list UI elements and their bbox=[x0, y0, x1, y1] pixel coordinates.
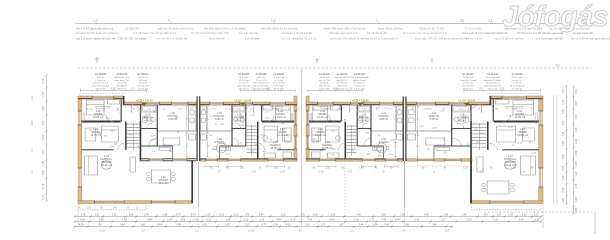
unit 4: terrace dashed outline bbox=[471, 204, 541, 210]
svg-text:tok 1,0 kosz valaszfal mm ret: tok 1,0 kosz valaszfal mm ret bbox=[76, 36, 115, 40]
unit 2: window left-wall mid bbox=[294, 136, 298, 149]
svg-text:2,4 25 2,4: 2,4 25 2,4 bbox=[138, 88, 149, 90]
unit 4: window bottom-mid bbox=[445, 158, 461, 161]
right edge line bbox=[594, 212, 596, 234]
top border line bbox=[75, 23, 593, 25]
svg-text:1,99: 1,99 bbox=[144, 214, 149, 217]
svg-text:+2,87: +2,87 bbox=[517, 142, 523, 144]
svg-text:15 fsz nyil: 15 fsz nyil bbox=[463, 83, 473, 85]
svg-text:-0,02: -0,02 bbox=[251, 171, 257, 173]
unit 4: tv cabinet bbox=[477, 157, 483, 172]
svg-text:0,64: 0,64 bbox=[120, 224, 125, 227]
unit 4: window top-mid bbox=[449, 102, 468, 105]
svg-text:4,00: 4,00 bbox=[79, 224, 84, 227]
unit 1: bedroom door arc bbox=[106, 115, 114, 122]
svg-text:+2,87: +2,87 bbox=[519, 134, 525, 136]
svg-text:0,39: 0,39 bbox=[562, 89, 565, 94]
svg-text:4,51: 4,51 bbox=[265, 86, 271, 90]
unit 1: canopy overhang dashed bbox=[79, 93, 125, 95]
svg-text:1,76: 1,76 bbox=[259, 219, 264, 222]
svg-text:kosz besz 150: kosz besz 150 bbox=[115, 80, 130, 82]
unit 4: left exterior wall bbox=[539, 96, 543, 203]
unit 1: fridge bbox=[189, 134, 196, 140]
unit 3: dim lines under bottom wall bbox=[319, 165, 336, 167]
unit 1: wall tick marks bbox=[120, 105, 122, 107]
unit 2: elevation marker bbox=[240, 103, 246, 106]
unit 4: window top-right bbox=[416, 102, 435, 105]
unit 1: window top-mid bbox=[143, 102, 160, 105]
svg-text:15 210 30: 15 210 30 bbox=[125, 26, 139, 30]
svg-text:E1 90/240: E1 90/240 bbox=[238, 73, 250, 76]
unit 4: room2/living separator wall bbox=[502, 149, 539, 151]
svg-text:4,00: 4,00 bbox=[424, 214, 429, 217]
unit 1: hall door arc bbox=[149, 138, 157, 145]
svg-text:75 12 mm 60: 75 12 mm 60 bbox=[464, 26, 482, 30]
svg-text:2,83: 2,83 bbox=[112, 214, 117, 217]
unit 1: window bottom-mid bbox=[149, 158, 163, 161]
svg-text:2,31: 2,31 bbox=[281, 214, 286, 217]
svg-text:90 acel fsz 50 acel em nyil ko: 90 acel fsz 50 acel em nyil kosz bbox=[76, 31, 119, 35]
unit 3: bedroom right wall bbox=[340, 105, 342, 122]
svg-text:A1 90/240: A1 90/240 bbox=[512, 73, 524, 76]
svg-text:10 ret 15: 10 ret 15 bbox=[117, 82, 126, 85]
expansion joint centre line bbox=[301, 69, 303, 227]
svg-text:ret ajto 2,4: ret ajto 2,4 bbox=[354, 85, 365, 88]
unit 1: coffee table bbox=[101, 161, 111, 169]
svg-text:3,22: 3,22 bbox=[219, 214, 224, 217]
svg-text:3,53: 3,53 bbox=[522, 214, 527, 217]
unit 4: wardrobe bbox=[495, 100, 509, 105]
unit 4: elevation marker bbox=[464, 103, 470, 106]
unit 4: bedroom door arc bbox=[502, 115, 511, 122]
unit 2: hall wall bbox=[231, 105, 233, 146]
svg-text:14,25 m2: 14,25 m2 bbox=[317, 115, 328, 119]
unit 4: kitchen counter bbox=[407, 106, 415, 131]
svg-text:10 tok valaszfal 75 2,4 12: 10 tok valaszfal 75 2,4 12 bbox=[282, 36, 317, 40]
svg-text:0,65: 0,65 bbox=[562, 140, 565, 145]
svg-text:ajto fsz 90 kosz nyil 50 fsz: ajto fsz 90 kosz nyil 50 fsz bbox=[158, 26, 194, 30]
svg-text:3,77: 3,77 bbox=[261, 224, 266, 227]
svg-text:1,32: 1,32 bbox=[206, 214, 211, 217]
svg-text:3,78: 3,78 bbox=[291, 219, 296, 222]
unit 1: bath separator bbox=[140, 128, 157, 130]
svg-text:mm 2,4 db tok nyil fsz: mm 2,4 db tok nyil fsz bbox=[494, 36, 524, 40]
unit 3: wardrobe bbox=[330, 106, 340, 111]
unit 1: wing door arc bbox=[118, 143, 126, 150]
svg-text:0,97: 0,97 bbox=[276, 219, 281, 222]
unit 1: bed bbox=[86, 100, 104, 115]
svg-text:3,69: 3,69 bbox=[307, 219, 312, 222]
svg-text:hf 75 nyil: hf 75 nyil bbox=[274, 80, 283, 82]
unit 3: bedroom separator wall bbox=[309, 121, 341, 123]
unit 4: dining table bbox=[487, 181, 509, 194]
unit 2: radiator top window bbox=[271, 107, 283, 109]
svg-text:+2,87: +2,87 bbox=[109, 146, 115, 148]
svg-text:0,55: 0,55 bbox=[42, 105, 45, 110]
svg-text:50 60 kosz: 50 60 kosz bbox=[463, 88, 474, 90]
unit 3: dining circle table bbox=[377, 143, 387, 153]
svg-text:ablak 240 kosz 240 hf 12 fsz f: ablak 240 kosz 240 hf 12 fsz fa bbox=[323, 26, 365, 30]
svg-text:1,25: 1,25 bbox=[463, 168, 468, 170]
svg-text:2,4 25 besz CW 30 vb 240 kosz: 2,4 25 besz CW 30 vb 240 kosz bbox=[133, 31, 176, 35]
unit 3: left exterior wall bbox=[306, 96, 309, 161]
svg-text:1: 1 bbox=[376, 19, 378, 23]
svg-text:2,31: 2,31 bbox=[305, 224, 310, 227]
unit 4: bath door arc bbox=[456, 123, 463, 129]
svg-text:15 15 90 fa db: 15 15 90 fa db bbox=[367, 31, 387, 35]
svg-text:1,65: 1,65 bbox=[462, 214, 467, 217]
unit 2: sofa bbox=[283, 152, 292, 158]
unit 4: interior vertical dim line bbox=[417, 106, 419, 157]
unit 2: entry door arc bbox=[246, 105, 254, 113]
svg-text:1,25: 1,25 bbox=[511, 168, 516, 170]
svg-text:+0,15 = 103,45: +0,15 = 103,45 bbox=[234, 100, 251, 103]
svg-text:+0,15 = 103,45: +0,15 = 103,45 bbox=[136, 100, 153, 103]
svg-text:2,60: 2,60 bbox=[400, 214, 405, 217]
unit 2: radiator left window bbox=[291, 113, 293, 123]
svg-text:1,73: 1,73 bbox=[42, 78, 45, 83]
unit 4: hall closet wall bbox=[433, 146, 435, 159]
svg-text:2,46: 2,46 bbox=[575, 161, 578, 166]
svg-text:150 90 150 2,4 ablak: 150 90 150 2,4 ablak bbox=[118, 36, 147, 40]
svg-text:2,4: 2,4 bbox=[271, 19, 276, 23]
dimension chain bottom 1 bbox=[75, 216, 541, 218]
svg-text:valaszfal 1,0 fsz: valaszfal 1,0 fsz bbox=[114, 77, 130, 79]
unit 3: bed bbox=[313, 106, 328, 121]
svg-text:+2,87: +2,87 bbox=[224, 154, 230, 156]
svg-text:2,44: 2,44 bbox=[359, 224, 364, 227]
svg-text:+2,87: +2,87 bbox=[150, 140, 156, 142]
svg-text:Jófogás: Jófogás bbox=[502, 1, 608, 33]
svg-text:vb 90 besz: vb 90 besz bbox=[337, 83, 348, 85]
unit 1: window top-left bbox=[92, 96, 113, 99]
unit 3: top wall bbox=[306, 102, 403, 105]
svg-text:2,22: 2,22 bbox=[206, 219, 211, 222]
svg-text:2,80: 2,80 bbox=[381, 214, 386, 217]
svg-text:14,25 m2: 14,25 m2 bbox=[93, 115, 104, 119]
unit 1: wardrobe bbox=[108, 100, 120, 105]
unit 1: window bottom-right bbox=[173, 158, 187, 161]
svg-text:1,04: 1,04 bbox=[395, 219, 400, 222]
unit 3: room2 desk bbox=[312, 128, 321, 141]
unit 2: bedroom separator wall bbox=[262, 121, 294, 123]
unit 1: bottom exterior wall (full depth) bbox=[78, 201, 193, 204]
unit 2: staircase bbox=[247, 125, 257, 127]
svg-text:CW valaszfal 75: CW valaszfal 75 bbox=[253, 83, 270, 85]
unit 3: fridge bbox=[397, 134, 403, 140]
svg-text:1,12: 1,12 bbox=[245, 224, 250, 227]
unit 4: kitchen table bbox=[426, 138, 445, 145]
unit 2: window bottom-3 bbox=[206, 158, 218, 161]
svg-text:0,74: 0,74 bbox=[191, 214, 196, 217]
svg-text:kosz db tok: kosz db tok bbox=[209, 36, 225, 40]
svg-text:valaszfal 30 150: valaszfal 30 150 bbox=[334, 77, 351, 79]
svg-text:4,31: 4,31 bbox=[202, 224, 207, 227]
svg-text:+2,87: +2,87 bbox=[228, 109, 234, 111]
unit 1: terrace door wing bottom bbox=[95, 200, 125, 203]
unit 2: bedroom right wall bbox=[261, 105, 263, 122]
unit 1: bathtub bbox=[141, 106, 156, 113]
unit 1: step wall bbox=[123, 96, 125, 105]
svg-text:4,42: 4,42 bbox=[483, 214, 488, 217]
unit 2: cupboard bbox=[264, 153, 276, 158]
svg-text:30 ablak hf: 30 ablak hf bbox=[116, 86, 127, 88]
svg-text:1,50: 1,50 bbox=[31, 95, 34, 100]
unit 3: bedroom door arc bbox=[329, 115, 335, 122]
svg-text:-0,02: -0,02 bbox=[479, 171, 485, 173]
unit 2: room2 bed bbox=[264, 126, 278, 142]
svg-text:+2,95: +2,95 bbox=[318, 171, 325, 173]
svg-text:150 ret 90: 150 ret 90 bbox=[488, 87, 499, 90]
svg-text:14,25 m2: 14,25 m2 bbox=[275, 115, 286, 119]
unit 2: window bottom-1 bbox=[268, 158, 284, 161]
svg-text:2,4 10 nyil: 2,4 10 nyil bbox=[274, 86, 284, 88]
unit 2: wing door arc bbox=[258, 143, 265, 150]
svg-text:1,11: 1,11 bbox=[534, 214, 539, 217]
svg-text:4,51: 4,51 bbox=[500, 86, 506, 90]
unit 2: armchair bbox=[284, 135, 291, 142]
svg-text:3,80: 3,80 bbox=[31, 120, 34, 125]
svg-text:50 fsz fa: 50 fsz fa bbox=[139, 80, 148, 82]
unit 3: wing door arc bbox=[338, 143, 345, 150]
svg-text:1,51: 1,51 bbox=[535, 219, 540, 222]
svg-text:E1 90/240: E1 90/240 bbox=[463, 73, 475, 76]
svg-text:4,60 m2: 4,60 m2 bbox=[235, 120, 244, 123]
unit 2: stair wall bbox=[257, 122, 259, 159]
svg-text:3,76: 3,76 bbox=[81, 214, 86, 217]
unit 4: radiator top window bbox=[506, 107, 522, 109]
svg-text:05: 05 bbox=[460, 19, 464, 23]
svg-text:2,51: 2,51 bbox=[350, 230, 355, 233]
svg-text:+2,87: +2,87 bbox=[390, 140, 396, 142]
unit 4: fridge bbox=[407, 134, 415, 140]
unit 3: window bottom-1 bbox=[320, 158, 336, 161]
svg-text:0,84: 0,84 bbox=[42, 135, 45, 140]
svg-text:50 210 acel: 50 210 acel bbox=[137, 86, 149, 88]
svg-text:4,30: 4,30 bbox=[80, 219, 85, 222]
svg-text:fsz hf 60: fsz hf 60 bbox=[139, 83, 148, 85]
unit 1: dim line above bbox=[80, 90, 146, 92]
svg-text:12,0: 12,0 bbox=[445, 230, 450, 233]
svg-text:2,59: 2,59 bbox=[519, 219, 524, 222]
svg-text:1,50: 1,50 bbox=[86, 207, 91, 209]
unit 2: hall door arc bbox=[232, 138, 239, 145]
unit 2: window bottom-2 bbox=[228, 158, 241, 161]
svg-text:12 nyil 75: 12 nyil 75 bbox=[239, 83, 249, 85]
svg-text:A1 90/240: A1 90/240 bbox=[319, 73, 331, 76]
unit 1: kitchen table bbox=[163, 138, 180, 145]
svg-text:1,21: 1,21 bbox=[467, 219, 472, 222]
svg-text:0,82: 0,82 bbox=[562, 154, 565, 159]
unit 4: closet shelf bbox=[436, 148, 450, 151]
svg-text:1,60: 1,60 bbox=[562, 197, 565, 202]
svg-text:1,53: 1,53 bbox=[122, 219, 127, 222]
svg-text:0,33: 0,33 bbox=[42, 170, 45, 175]
svg-text:4,44: 4,44 bbox=[330, 219, 335, 222]
house unit 4 (mirrored) bbox=[407, 94, 544, 210]
svg-text:fsz 1,0 15 gerenda besz tok: fsz 1,0 15 gerenda besz tok bbox=[76, 26, 114, 30]
svg-text:CW 15 15: CW 15 15 bbox=[117, 88, 128, 90]
svg-text:4,51: 4,51 bbox=[111, 86, 117, 90]
svg-text:0,75: 0,75 bbox=[176, 214, 181, 217]
unit 4: bedroom right wall bbox=[492, 99, 494, 122]
unit 1: left exterior wall bbox=[78, 96, 82, 203]
unit 3: window top-1 bbox=[318, 102, 334, 105]
party wall unit1/unit2 bbox=[196, 97, 198, 162]
svg-text:2,22: 2,22 bbox=[244, 219, 249, 222]
unit 4: hall wall bbox=[451, 105, 453, 146]
unit 4: top wall left section bbox=[490, 96, 543, 99]
consignment text rows bbox=[76, 26, 610, 40]
svg-text:tok gerenda vb: tok gerenda vb bbox=[510, 85, 525, 88]
svg-text:+0,15 = 103,45: +0,15 = 103,45 bbox=[458, 100, 475, 103]
unit 1: bedroom separator wall bbox=[82, 121, 121, 123]
unit 4: wing right interior wall bbox=[470, 121, 472, 160]
svg-text:A2 90/240: A2 90/240 bbox=[336, 73, 348, 76]
unit 4: sofa bbox=[521, 156, 536, 175]
unit 3: dim line above bbox=[308, 90, 362, 92]
unit 2: fridge bbox=[200, 134, 206, 140]
unit 3: radiator left window bbox=[310, 113, 312, 123]
unit 1: window left-wall upper bbox=[78, 111, 82, 125]
unit 1: dining table bbox=[151, 170, 170, 183]
unit 1: interior vertical dim line bbox=[186, 106, 188, 157]
unit 2: kitchen counter bbox=[200, 106, 206, 131]
unit 4: dim line above bbox=[464, 90, 540, 92]
svg-text:mm vb 30 em 12 db db: mm vb 30 em 12 db db bbox=[156, 36, 187, 40]
svg-text:+2,95: +2,95 bbox=[520, 171, 527, 173]
unit 1: sofa bbox=[85, 156, 98, 175]
svg-text:1,22: 1,22 bbox=[95, 214, 100, 217]
party wall unit3/unit4 bbox=[402, 97, 404, 162]
unit 2: wardrobe bbox=[263, 106, 273, 111]
svg-text:1,13: 1,13 bbox=[562, 99, 565, 104]
unit 2: dining circle table bbox=[216, 143, 226, 153]
unit 1: top wall right section bbox=[123, 102, 196, 105]
unit 3: closet shelf bbox=[372, 148, 382, 151]
unit 2: hall closet wall bbox=[218, 146, 220, 159]
unit 2: bath left wall bbox=[245, 105, 247, 129]
svg-text:besz fa 12 2,4 gerenda hf: besz fa 12 2,4 gerenda hf bbox=[363, 36, 398, 40]
unit 4: bedroom separator wall bbox=[494, 121, 539, 123]
extension line building right bbox=[542, 203, 544, 228]
svg-text:2,40: 2,40 bbox=[112, 207, 117, 209]
svg-text:nyil ajto kosz: nyil ajto kosz bbox=[353, 82, 366, 85]
unit 1: entry door arc bbox=[131, 105, 140, 113]
svg-text:1,25: 1,25 bbox=[359, 168, 364, 170]
unit 3: window left-wall mid bbox=[306, 136, 310, 149]
svg-text:4,21: 4,21 bbox=[286, 224, 291, 227]
svg-text:+2,87: +2,87 bbox=[239, 125, 245, 127]
unit 1: room2 bed bbox=[102, 126, 119, 142]
svg-text:2,76: 2,76 bbox=[193, 219, 198, 222]
unit 4: room2 desk bbox=[523, 128, 535, 141]
unit 1: bath door arc bbox=[147, 123, 154, 129]
unit 1: hall closet wall bbox=[172, 146, 174, 159]
unit 1: wing right interior wall bbox=[139, 121, 141, 160]
svg-text:3,96: 3,96 bbox=[404, 224, 409, 227]
unit 3: hall door arc bbox=[364, 138, 371, 145]
svg-text:15 150 vb: 15 150 vb bbox=[512, 88, 522, 90]
unit 3: kitchen counter bbox=[397, 106, 403, 131]
unit 4: step wall bbox=[489, 96, 491, 105]
svg-text:1,83: 1,83 bbox=[575, 138, 578, 143]
svg-text:1,65: 1,65 bbox=[575, 196, 578, 201]
svg-text:fa 1,0 fsz mm 12 gerenda ret 1: fa 1,0 fsz mm 12 gerenda ret 1,0 bbox=[403, 31, 447, 35]
unit 4: wing right exterior wall bbox=[470, 160, 472, 203]
house unit 3 bbox=[306, 96, 403, 168]
svg-text:26,42 m2: 26,42 m2 bbox=[505, 163, 516, 167]
unit 3: staircase bbox=[346, 125, 356, 127]
svg-text:210 30 60: 210 30 60 bbox=[138, 77, 149, 79]
unit 1: hall lower wall bbox=[141, 145, 173, 147]
svg-text:1,00: 1,00 bbox=[273, 224, 278, 227]
svg-text:3,26: 3,26 bbox=[354, 219, 359, 222]
unit 2: top wall bbox=[200, 102, 297, 105]
unit 2: bedroom door arc bbox=[268, 115, 274, 122]
svg-text:1,0 besz hf: 1,0 besz hf bbox=[95, 80, 106, 82]
dashed line lower right bbox=[484, 211, 595, 213]
svg-text:E1 90/240: E1 90/240 bbox=[138, 73, 150, 76]
svg-text:valaszfal 15 mm: valaszfal 15 mm bbox=[460, 80, 476, 82]
svg-text:90 CW em: 90 CW em bbox=[239, 80, 250, 82]
unit 3: window bottom-3 bbox=[386, 158, 398, 161]
svg-text:1,25: 1,25 bbox=[239, 168, 244, 170]
unit 2: washbasin bbox=[233, 118, 237, 122]
svg-text:1,0 60 acel: 1,0 60 acel bbox=[245, 36, 260, 40]
svg-text:+2,87: +2,87 bbox=[431, 128, 437, 130]
unit 4: staircase bbox=[472, 123, 486, 125]
svg-text:1,82: 1,82 bbox=[140, 224, 145, 227]
unit 3: bath separator bbox=[357, 128, 371, 130]
svg-text:3,68: 3,68 bbox=[313, 214, 318, 217]
unit 4: room2 bed bbox=[497, 126, 516, 142]
unit 4: wall tick marks bbox=[492, 105, 494, 107]
unit 2: bathtub bbox=[232, 106, 245, 113]
svg-text:3,42: 3,42 bbox=[443, 214, 448, 217]
svg-text:2,84: 2,84 bbox=[259, 214, 264, 217]
unit 2: room2 desk bbox=[282, 128, 291, 141]
svg-text:3,49: 3,49 bbox=[381, 219, 386, 222]
unit 3: washbasin bbox=[366, 118, 370, 122]
unit 2: window top-1 bbox=[270, 102, 286, 105]
svg-text:90 30 240: 90 30 240 bbox=[274, 88, 285, 90]
svg-text:2,42: 2,42 bbox=[575, 171, 578, 176]
section marks above plan bbox=[95, 57, 99, 63]
unit 1: window top-right bbox=[171, 102, 188, 105]
svg-text:3,21: 3,21 bbox=[414, 219, 419, 222]
svg-text:1,87: 1,87 bbox=[339, 224, 344, 227]
svg-text:2,4 kosz ajto nyil 90: 2,4 kosz ajto nyil 90 bbox=[536, 36, 563, 40]
svg-text:2,27: 2,27 bbox=[441, 219, 446, 222]
svg-text:1,29: 1,29 bbox=[562, 120, 565, 125]
svg-text:Fs: Fs bbox=[556, 64, 560, 68]
unit 2: wc bbox=[240, 117, 244, 123]
svg-text:E1 90/240: E1 90/240 bbox=[354, 73, 366, 76]
unit 4: hall lower wall bbox=[434, 145, 471, 147]
unit 4: wing bottom exterior wall bbox=[471, 201, 543, 204]
unit 3: window top-3 bbox=[380, 102, 394, 105]
svg-text:3,52: 3,52 bbox=[181, 219, 186, 222]
unit 2: wall tick marks bbox=[261, 105, 263, 107]
svg-text:kosz ablak 150 fsz: kosz ablak 150 fsz bbox=[378, 26, 404, 30]
svg-text:nyil 15 25: nyil 15 25 bbox=[337, 86, 347, 88]
svg-text:14,25 m2: 14,25 m2 bbox=[514, 115, 525, 119]
dimension chain left bbox=[46, 75, 48, 201]
unit 2: bottom exterior wall bbox=[200, 159, 297, 162]
unit 3: room2 bed bbox=[325, 126, 339, 142]
svg-text:0,65: 0,65 bbox=[384, 224, 389, 227]
